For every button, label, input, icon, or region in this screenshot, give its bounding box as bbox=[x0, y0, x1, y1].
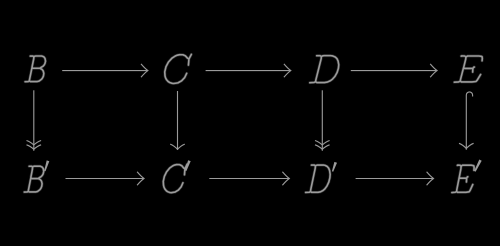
node B&#39; bbox=[24, 160, 49, 192]
node B bbox=[25, 56, 45, 82]
arrow E to E&#39; hook mono bbox=[459, 92, 474, 150]
arrow D to D&#39; two-headed epi bbox=[315, 90, 330, 151]
node C bbox=[165, 54, 192, 83]
arrow D&#39; to E&#39; bbox=[356, 172, 434, 185]
node C&#39; bbox=[163, 160, 190, 193]
arrow C to D bbox=[206, 64, 291, 77]
arrow C&#39; to D&#39; bbox=[209, 172, 289, 185]
node D&#39; bbox=[306, 162, 337, 193]
arrow B&#39; to C&#39; bbox=[66, 172, 145, 185]
arrow C to C&#39; bbox=[170, 91, 185, 150]
arrow D to E bbox=[351, 64, 437, 77]
node D bbox=[310, 56, 339, 83]
node E&#39; bbox=[452, 160, 482, 193]
arrow B to B&#39; two-headed epi bbox=[27, 90, 42, 151]
arrow B to C bbox=[62, 64, 148, 77]
node E bbox=[454, 56, 482, 82]
